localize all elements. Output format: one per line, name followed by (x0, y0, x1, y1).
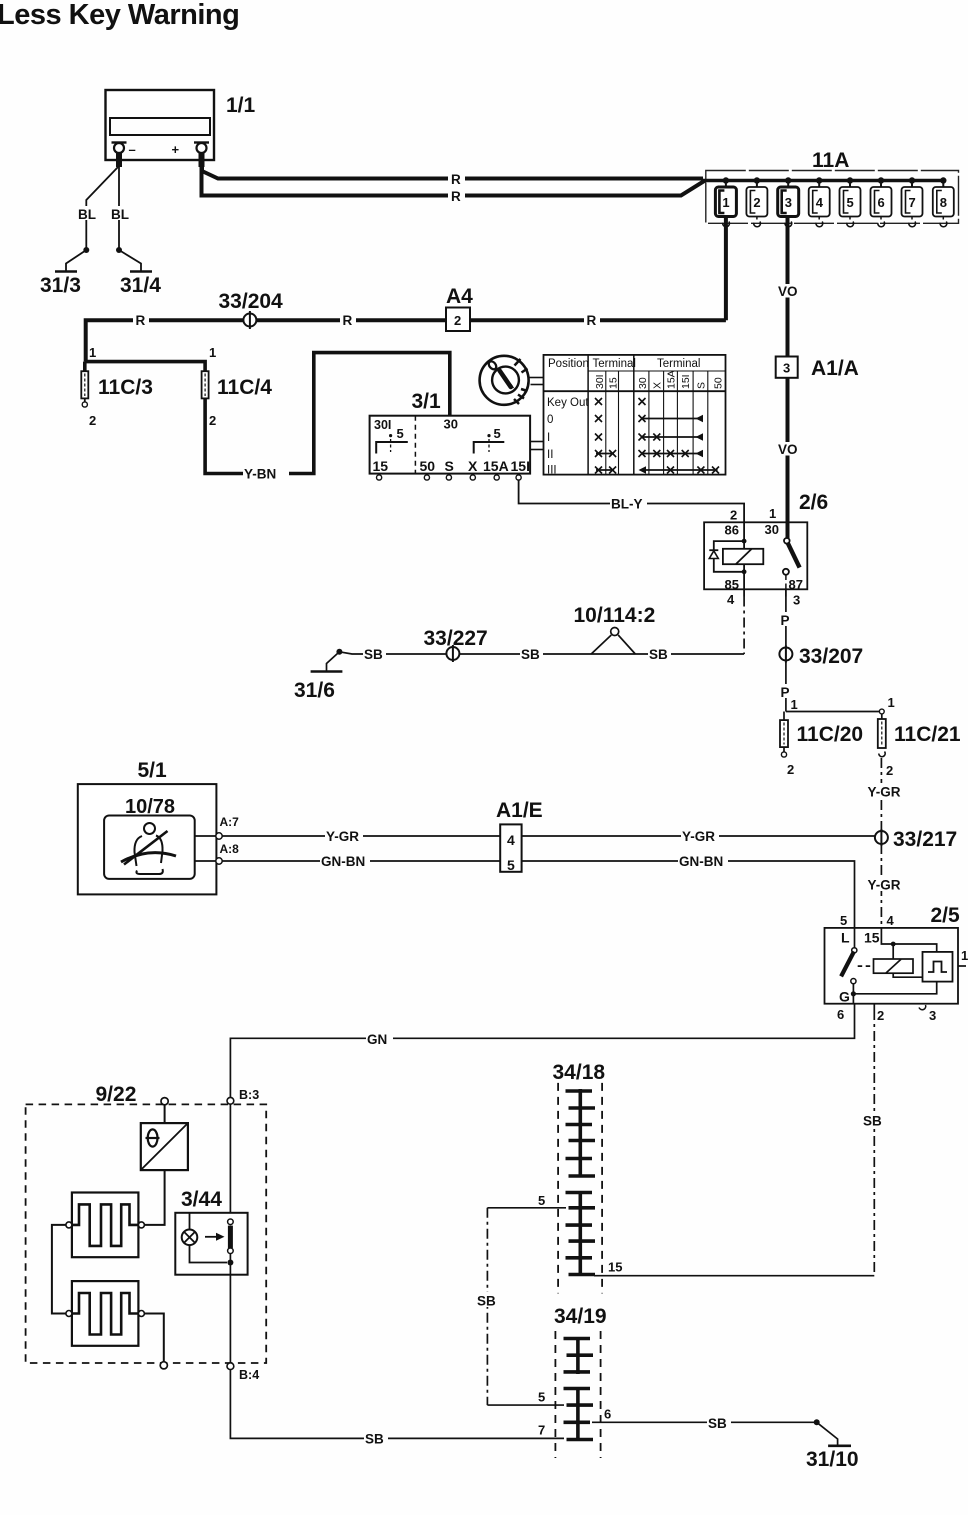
svg-text:B:4: B:4 (239, 1368, 259, 1382)
svg-text:2/5: 2/5 (931, 904, 961, 927)
svg-text:5: 5 (847, 195, 854, 210)
label R left (136, 313, 146, 328)
svg-text:30: 30 (444, 417, 458, 432)
svg-text:15: 15 (607, 377, 619, 389)
table row II marks (595, 450, 703, 458)
label SB bottom left (365, 1432, 384, 1447)
svg-text:30I: 30I (374, 418, 391, 432)
svg-text:30I: 30I (594, 374, 606, 389)
label P upper (781, 613, 790, 628)
svg-text:7: 7 (538, 1423, 545, 1438)
wire from 3/44 to B:4 (229, 1275, 231, 1363)
svg-text:1: 1 (89, 345, 96, 360)
svg-text:R: R (451, 172, 461, 187)
svg-text:GN: GN (367, 1032, 387, 1047)
svg-text:15I: 15I (680, 374, 692, 389)
ground connector 34/18 (553, 1061, 606, 1293)
ground 31/4 (116, 247, 161, 297)
svg-text:11C/4: 11C/4 (217, 376, 272, 399)
wire Y-GR from 11C/21 to splice 33/217 (867, 758, 897, 831)
switch 3/44 (175, 1188, 247, 1275)
fuse box 11A (703, 149, 959, 223)
fuse 5 in 11A (840, 177, 861, 226)
svg-text:Terminal: Terminal (593, 358, 636, 370)
label BL left (78, 207, 96, 222)
svg-text:SB: SB (477, 1294, 496, 1309)
label Y-GR upper right (868, 785, 901, 800)
svg-text:4: 4 (887, 913, 895, 928)
heater element 2 in 9/22 (66, 1281, 144, 1346)
svg-text:87: 87 (789, 577, 803, 592)
seat belt indicator 10/78 (104, 816, 195, 879)
title Less Key Warning (0, 0, 239, 31)
pin 5 of 34/18 (487, 1193, 566, 1208)
pin 3 of relay 2/6 (786, 589, 800, 607)
fuse 1 in 11A (715, 177, 736, 226)
label R lower (448, 188, 465, 204)
svg-text:33/207: 33/207 (799, 645, 863, 668)
svg-text:6: 6 (604, 1407, 611, 1422)
svg-text:SB: SB (521, 647, 540, 662)
svg-text:2/6: 2/6 (799, 491, 828, 514)
ground 31/6 (294, 649, 342, 702)
svg-text:15: 15 (864, 930, 880, 946)
table row I marks (595, 433, 703, 441)
svg-text:2: 2 (209, 413, 216, 428)
wire R lower from battery + to fuse box (202, 166, 706, 196)
label R upper (448, 171, 465, 187)
wire SB from 31/6 to relay pin 4 (339, 647, 744, 662)
svg-text:SB: SB (708, 1416, 727, 1431)
svg-text:GN-BN: GN-BN (679, 854, 723, 869)
svg-text:S: S (445, 458, 454, 474)
svg-text:–: – (129, 142, 136, 157)
label R right (587, 313, 597, 328)
wire to fuses 11C/3 and 11C/4 (85, 362, 205, 372)
label VO lower (778, 442, 798, 457)
pin 2 of 2/5 (874, 1004, 884, 1023)
svg-text:R: R (136, 313, 146, 328)
svg-text:50: 50 (712, 377, 724, 389)
label P lower (781, 685, 790, 700)
svg-text:6: 6 (837, 1007, 844, 1022)
svg-text:34/18: 34/18 (553, 1061, 606, 1084)
svg-text:1: 1 (769, 506, 776, 521)
svg-text:31/6: 31/6 (294, 679, 335, 702)
svg-text:4: 4 (816, 195, 824, 210)
splice 33/204 (219, 290, 284, 329)
label SB middle (521, 647, 540, 662)
svg-text:SB: SB (365, 1432, 384, 1447)
ground 31/10 (806, 1419, 859, 1471)
splice 33/227 (424, 627, 488, 662)
branch 10/114:2 on SB wire (574, 604, 656, 654)
wire Y-GR from splice 33/217 to 2/5 pin 4 (867, 844, 897, 928)
fuse 11C/4 (202, 371, 273, 428)
svg-text:10/114:2: 10/114:2 (574, 604, 656, 627)
pin 3 of 2/5 (919, 1005, 936, 1023)
fuse 8 in 11A (933, 177, 954, 226)
pin 6 of 2/5 (837, 1004, 855, 1022)
svg-text:P: P (781, 613, 790, 628)
ground connector 34/19 (554, 1305, 607, 1458)
svg-text:30: 30 (637, 377, 649, 389)
wire P from relay pin 3 to splice 33/207 (779, 597, 793, 648)
wire SB from 2/5 pin 2 to 34/18 pin 15 (862, 1010, 887, 1276)
svg-text:Y-GR: Y-GR (326, 829, 359, 844)
wire from P to 11C/21 top (786, 709, 884, 714)
connector A1/E pins 4 and 5 (496, 799, 543, 873)
svg-text:15A: 15A (665, 370, 677, 389)
wire R distribution line (86, 311, 726, 362)
svg-text:Terminal: Terminal (657, 358, 700, 370)
label Y-GR left (326, 829, 359, 844)
label SB right vertical (863, 1114, 882, 1129)
svg-text:BL-Y: BL-Y (611, 497, 643, 512)
svg-text:31/4: 31/4 (120, 274, 161, 297)
label SB mid vertical (477, 1294, 496, 1309)
wire BL left from battery - to ground 31/3 (77, 167, 118, 250)
svg-text:R: R (587, 313, 597, 328)
svg-text:VO: VO (778, 442, 798, 457)
splice 33/207 (779, 645, 863, 668)
connector A1/A pin 3 (776, 357, 859, 381)
wire SB from relay pin 4 down (743, 597, 745, 655)
svg-text:B:3: B:3 (239, 1088, 259, 1102)
pin A:8 of 5/1 (195, 842, 239, 864)
battery 1/1 (106, 90, 256, 167)
svg-text:15: 15 (608, 1260, 622, 1275)
thermostat sensor in 9/22 (141, 1105, 188, 1225)
svg-text:5: 5 (494, 426, 501, 441)
svg-text:2: 2 (730, 508, 737, 523)
svg-text:A:8: A:8 (220, 842, 240, 856)
svg-text:+: + (172, 142, 180, 157)
svg-text:1: 1 (961, 948, 968, 963)
svg-text:31/3: 31/3 (40, 274, 81, 297)
svg-text:1: 1 (209, 345, 216, 360)
svg-text:8: 8 (940, 195, 947, 210)
svg-text:9/22: 9/22 (96, 1083, 137, 1106)
svg-text:1/1: 1/1 (226, 94, 256, 117)
svg-text:Less Key Warning: Less Key Warning (0, 0, 239, 31)
label BL right (111, 207, 129, 222)
svg-text:11C/21: 11C/21 (894, 723, 961, 746)
svg-text:X: X (652, 382, 664, 389)
svg-text:3/44: 3/44 (181, 1188, 222, 1211)
pin 15 of 34/18 (594, 1260, 874, 1276)
svg-text:5: 5 (538, 1390, 545, 1405)
pin 5 label 34/19 (538, 1390, 545, 1405)
svg-text:Y-GR: Y-GR (868, 878, 901, 893)
svg-text:2: 2 (877, 1008, 884, 1023)
fuse 4 in 11A (809, 177, 830, 226)
svg-text:5: 5 (397, 426, 404, 441)
svg-text:I: I (547, 432, 550, 444)
wire P from splice 33/207 down (779, 661, 793, 712)
svg-text:SB: SB (649, 647, 668, 662)
svg-text:6: 6 (878, 195, 885, 210)
label Y-GR lower right (868, 878, 901, 893)
terminal hooks under 3/1 (377, 475, 522, 480)
svg-text:31/10: 31/10 (806, 1448, 859, 1471)
svg-text:3: 3 (785, 195, 792, 210)
svg-text:2: 2 (787, 762, 794, 777)
fuse 11C/20 (780, 712, 863, 778)
svg-text:5/1: 5/1 (138, 759, 168, 782)
svg-text:III: III (547, 465, 557, 477)
wire VO from fuse 3 down to relay 2/6 pin 1 (776, 217, 800, 542)
svg-text:11A: 11A (812, 149, 849, 172)
fuse 11C/3 (81, 371, 153, 428)
svg-text:15: 15 (373, 458, 389, 474)
table row III marks (595, 466, 719, 474)
pin 1 label 11C/3 (89, 345, 96, 360)
wire linking heater elements (52, 1225, 66, 1314)
svg-text:P: P (781, 685, 790, 700)
pin 6 label 34/19 (604, 1407, 611, 1422)
wire R upper from battery + to fuse box (202, 165, 703, 179)
table row 0 marks (595, 415, 703, 423)
svg-text:SB: SB (863, 1114, 882, 1129)
svg-text:L: L (841, 930, 850, 946)
svg-text:11C/3: 11C/3 (98, 376, 153, 399)
svg-text:II: II (547, 449, 553, 461)
svg-text:2: 2 (886, 763, 893, 778)
label SB left (364, 647, 383, 662)
ground 31/3 (40, 247, 89, 297)
link lines 3/1 to table (530, 442, 543, 450)
node B:3 (227, 1088, 259, 1104)
svg-text:3/1: 3/1 (412, 390, 442, 413)
svg-text:Y-GR: Y-GR (868, 785, 901, 800)
wire BL-Y from 3/1 15I to relay 2/6 pin 2 (519, 480, 745, 522)
svg-text:A1/E: A1/E (496, 799, 543, 822)
svg-text:2: 2 (753, 195, 760, 210)
svg-text:A:7: A:7 (220, 815, 240, 829)
svg-text:2: 2 (454, 313, 461, 328)
table row Key Out marks (595, 398, 646, 405)
svg-text:15I: 15I (511, 458, 530, 474)
svg-text:GN-BN: GN-BN (321, 854, 365, 869)
svg-text:5: 5 (538, 1193, 545, 1208)
wire GN-BN from A:8 to 2/5 pin 5 (222, 854, 854, 928)
svg-text:1: 1 (791, 697, 798, 712)
wire heater 2 to 9/22 bottom terminal (144, 1314, 167, 1369)
fuse 3 in 11A (778, 177, 799, 226)
label GN-BN mid (679, 854, 723, 869)
fuse 2 in 11A (746, 177, 767, 226)
svg-text:A4: A4 (446, 285, 473, 308)
wire GN from 2/5 pin 6 to B:3 (230, 1010, 854, 1097)
pin 1 label 11C/4 (209, 345, 216, 360)
heater element 1 in 9/22 (66, 1193, 144, 1258)
svg-text:33/217: 33/217 (893, 828, 957, 851)
splice 33/217 (875, 828, 957, 851)
wire SB from B:4 to 34/19 pin 7 (230, 1370, 564, 1446)
label GN (367, 1032, 387, 1047)
svg-text:33/204: 33/204 (219, 290, 284, 313)
svg-text:3: 3 (783, 361, 790, 376)
svg-text:A1/A: A1/A (811, 357, 859, 380)
svg-text:VO: VO (778, 284, 798, 299)
label R middle (343, 313, 353, 328)
label SB right (649, 647, 668, 662)
svg-text:2: 2 (89, 413, 96, 428)
svg-text:1: 1 (722, 195, 729, 210)
svg-text:R: R (343, 313, 353, 328)
label GN-BN left (321, 854, 365, 869)
fuse 6 in 11A (871, 177, 892, 226)
svg-text:Y-BN: Y-BN (244, 467, 276, 482)
svg-text:3: 3 (793, 593, 800, 608)
ignition switch 3/1 box (370, 390, 530, 474)
ignition key symbol (480, 356, 529, 405)
pin 1 label 11C/21 (888, 695, 895, 710)
svg-text:34/19: 34/19 (554, 1305, 607, 1328)
svg-text:85: 85 (725, 577, 739, 592)
pin 4 of relay 2/6 (727, 589, 744, 607)
label Y-GR mid (682, 829, 715, 844)
svg-text:11C/20: 11C/20 (797, 723, 864, 746)
wire from SB to 34/19 pin 5 (487, 1404, 564, 1406)
label SB bottom right (708, 1416, 727, 1431)
control unit 5/1 (78, 759, 217, 894)
svg-text:33/227: 33/227 (424, 627, 488, 650)
svg-text:X: X (468, 458, 478, 474)
svg-text:5: 5 (840, 913, 847, 928)
wire from fuse 1 down to R line (724, 217, 728, 321)
relay 2/6 (704, 491, 828, 592)
svg-text:50: 50 (420, 458, 436, 474)
label VO upper (778, 284, 798, 299)
svg-text:1: 1 (888, 695, 895, 710)
svg-text:S: S (696, 382, 708, 389)
svg-text:4: 4 (507, 832, 515, 848)
wire Y-BN from 11C/4 to 3/1 terminal 30 (205, 353, 450, 481)
pin 7 label 34/19 (538, 1423, 545, 1438)
svg-text:15A: 15A (483, 458, 509, 474)
fuse 11C/21 (878, 714, 961, 779)
svg-text:4: 4 (727, 592, 735, 607)
svg-text:R: R (451, 189, 461, 204)
label Y-BN (244, 467, 276, 482)
fuse 7 in 11A (902, 177, 923, 226)
pin 1 label 11C/20 (791, 697, 798, 712)
node B:4 (227, 1363, 259, 1382)
svg-text:G: G (839, 989, 850, 1005)
svg-text:0: 0 (547, 414, 553, 426)
svg-text:86: 86 (725, 523, 739, 538)
pin 6 of 34/19 wire SB to ground 31/10 (592, 1415, 817, 1430)
ignition position table (544, 355, 726, 477)
wire BL right from battery - to ground 31/4 (110, 167, 129, 250)
timer relay 2/5 (825, 904, 968, 1005)
link lines key to table (530, 378, 544, 385)
pin A:7 of 5/1 (195, 815, 239, 839)
svg-text:Y-GR: Y-GR (682, 829, 715, 844)
svg-text:BL: BL (111, 207, 129, 222)
svg-text:SB: SB (364, 647, 383, 662)
connector A4 pin 2 (446, 285, 473, 331)
svg-text:7: 7 (909, 195, 916, 210)
svg-text:Position: Position (548, 358, 589, 370)
wire from B:3 to 3/44 switch (229, 1104, 231, 1219)
terminal on 9/22 top edge (161, 1098, 168, 1105)
svg-text:BL: BL (78, 207, 96, 222)
wire SB from 34/18 pin 5 to 34/19 pin 5 (476, 1208, 501, 1405)
svg-text:Key Out: Key Out (547, 397, 589, 409)
wire Y-GR from A:7 to splice 33/217 (222, 829, 875, 844)
svg-text:30: 30 (765, 522, 779, 537)
svg-text:3: 3 (929, 1008, 936, 1023)
label BL-Y (611, 497, 643, 512)
svg-text:5: 5 (507, 857, 515, 873)
heater unit 9/22 dashed box (26, 1083, 267, 1363)
